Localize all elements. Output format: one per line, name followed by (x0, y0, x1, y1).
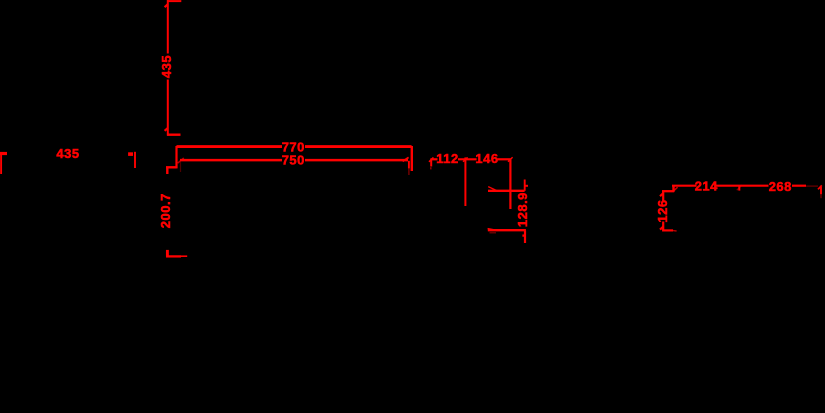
svg-text:128.9: 128.9 (515, 192, 530, 227)
svg-text:146: 146 (475, 151, 498, 166)
svg-text:126: 126 (655, 199, 670, 222)
svg-text:435: 435 (159, 55, 174, 78)
svg-text:200.7: 200.7 (158, 193, 173, 228)
svg-text:750: 750 (282, 153, 305, 168)
svg-text:435: 435 (56, 146, 79, 161)
svg-text:214: 214 (695, 178, 718, 193)
svg-text:112: 112 (436, 151, 458, 166)
svg-text:268: 268 (769, 179, 792, 194)
